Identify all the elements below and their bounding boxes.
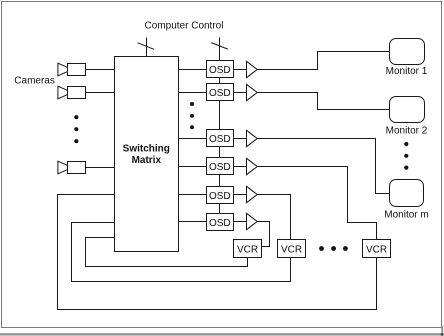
svg-text:Monitor 1: Monitor 1 [386, 66, 428, 77]
svg-text:Monitor m: Monitor m [384, 210, 428, 221]
monitor 2 [390, 97, 425, 123]
window corner [441, 333, 443, 335]
OSD 6 [207, 214, 234, 231]
OSD 3 [207, 130, 234, 147]
svg-text:Cameras: Cameras [14, 76, 55, 87]
camera 1 [58, 63, 86, 76]
window bottom edge [0, 333, 444, 335]
wire matrix to OSD 5 [179, 194, 207, 196]
wire OSD 2 to amp 2 [234, 92, 247, 94]
wire VCR 3 feedback to matrix [58, 195, 377, 310]
VCR row ellipsis dots [319, 246, 348, 251]
amp 4 [247, 158, 258, 174]
svg-text:Monitor 2: Monitor 2 [386, 126, 428, 137]
wire OSD 6 to amp 6 [234, 221, 247, 223]
svg-text:OSD: OSD [209, 191, 231, 202]
wire camera n to matrix [86, 167, 115, 169]
wire amp 5 to VCR 2 [257, 195, 291, 240]
wire OSD 3 to amp 3 [234, 138, 247, 140]
camera 2 [58, 86, 86, 99]
svg-text:VCR: VCR [281, 245, 302, 256]
svg-text:Switching: Switching [123, 144, 170, 155]
amp 2 [247, 84, 258, 100]
wire camera 1 to matrix [86, 69, 115, 71]
monitor m [390, 180, 424, 207]
wire matrix to OSD 6 [179, 221, 207, 223]
OSD 4 [207, 158, 234, 175]
wire amp 3 to monitor m [257, 139, 390, 194]
wire matrix to OSD 3 [179, 138, 207, 140]
OSD column ellipsis dots [190, 102, 194, 129]
svg-text:OSD: OSD [209, 162, 231, 173]
wire VCR 2 feedback to matrix [72, 223, 291, 282]
OSD 1 [207, 61, 234, 78]
bus slash on matrix control line [138, 43, 155, 50]
amp 5 [247, 186, 258, 202]
wire amp 6 to VCR 1 [257, 222, 270, 247]
wire amp 2 to monitor 2 [257, 93, 390, 110]
camera n [58, 161, 86, 174]
VCR 3 [363, 240, 391, 258]
svg-text:OSD: OSD [209, 88, 231, 99]
bus slash on OSD control line [211, 43, 228, 50]
VCR 2 [278, 240, 306, 258]
wire matrix to OSD 2 [179, 92, 207, 94]
wire matrix to OSD 1 [179, 69, 207, 71]
amp 6 [247, 213, 258, 229]
camera ellipsis dots [74, 115, 78, 143]
amp 1 [247, 61, 258, 77]
monitor column ellipsis dots [404, 142, 408, 170]
window right edge [441, 326, 443, 336]
OSD 5 [207, 187, 234, 204]
svg-text:Computer Control: Computer Control [145, 21, 224, 32]
monitor 1 [390, 39, 425, 65]
wire VCR 1 feedback to matrix [86, 238, 248, 267]
wire amp 1 to monitor 1 [257, 52, 390, 70]
svg-text:OSD: OSD [209, 134, 231, 145]
svg-text:VCR: VCR [237, 245, 258, 256]
svg-text:OSD: OSD [209, 65, 231, 76]
wire matrix to OSD 4 [179, 166, 207, 168]
wire amp 4 to VCR 3 [257, 167, 377, 240]
OSD 2 [207, 84, 234, 101]
wire camera 2 to matrix [86, 92, 115, 94]
svg-text:VCR: VCR [366, 245, 387, 256]
switching matrix U1 [115, 57, 179, 252]
VCR 1 [234, 240, 262, 258]
amp 3 [247, 130, 258, 146]
wire control line to matrix [146, 38, 148, 57]
wire control line through OSD chain [219, 38, 221, 214]
wire OSD 1 to amp 1 [234, 69, 247, 71]
svg-text:OSD: OSD [209, 218, 231, 229]
wire OSD 5 to amp 5 [234, 194, 247, 196]
wire OSD 4 to amp 4 [234, 166, 247, 168]
svg-text:Matrix: Matrix [132, 155, 162, 166]
